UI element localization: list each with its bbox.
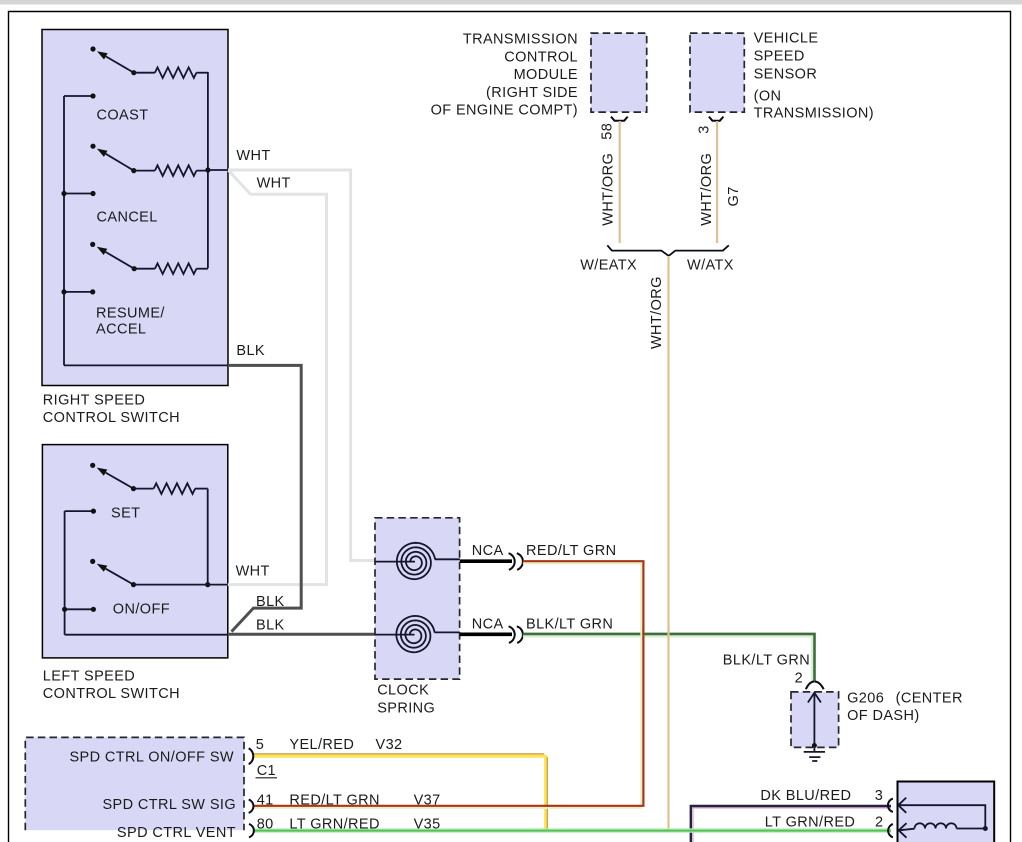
clock spring top coil (spiral) — [397, 543, 435, 579]
switch pivot dot (COAST) — [131, 70, 136, 75]
svg-text:41: 41 — [257, 793, 274, 809]
switch fixed contact dot (CANCEL) — [90, 144, 95, 149]
svg-text:RED/LT GRN: RED/LT GRN — [526, 543, 616, 559]
wire: pivot to resistor (CANCEL) — [134, 170, 155, 172]
wire: branch to SET contact — [65, 510, 94, 512]
switch pivot dot (SET) — [131, 486, 136, 491]
svg-text:W/ATX: W/ATX — [687, 258, 734, 274]
connector cup under TCM — [611, 117, 628, 121]
resistor (SET) — [154, 483, 196, 494]
junction dot (servo) — [983, 826, 988, 831]
svg-text:SPD CTRL ON/OFF SW: SPD CTRL ON/OFF SW — [69, 749, 234, 765]
connector bracket pin 5 — [249, 748, 254, 764]
clock spring bottom coil (spiral) — [396, 616, 434, 652]
switch contact arm (COAST) — [106, 56, 134, 72]
svg-text:SPEED: SPEED — [754, 49, 805, 65]
junction dot — [62, 607, 67, 612]
wire: pivot to resistor (RESUME) — [134, 268, 155, 270]
svg-text:YEL/RED: YEL/RED — [289, 737, 354, 753]
junction dot — [61, 191, 66, 196]
wire: branch to CANCEL contact — [64, 193, 93, 195]
svg-text:SENSOR: SENSOR — [754, 66, 818, 82]
node dot — [90, 191, 95, 196]
svg-text:V35: V35 — [414, 816, 441, 832]
svg-text:(RIGHT SIDE: (RIGHT SIDE — [486, 85, 578, 101]
wire DK BLU/RED : dk blue main — [691, 806, 891, 842]
wire out of top spiral — [435, 558, 460, 560]
wire BLK (right switch to junction) — [228, 365, 301, 631]
svg-text:WHT/ORG: WHT/ORG — [600, 153, 616, 226]
switch contact arm (ON/OFF) — [106, 569, 134, 585]
svg-text:80: 80 — [257, 816, 274, 832]
svg-text:CONTROL: CONTROL — [504, 49, 578, 65]
connector arc (G206) — [806, 682, 824, 690]
servo box (bottom right) — [898, 782, 995, 842]
junction dot (CANCEL output) — [205, 167, 210, 172]
svg-text:CONTROL SWITCH: CONTROL SWITCH — [43, 686, 180, 702]
svg-text:RESUME/: RESUME/ — [96, 305, 165, 321]
wire: right vertical SET resistor to ON/OFF — [207, 489, 209, 585]
svg-text:CANCEL: CANCEL — [97, 209, 158, 225]
wire WHT/ORG (combined, down) — [667, 256, 669, 829]
svg-text:MODULE: MODULE — [514, 67, 578, 83]
wire out of bottom spiral — [434, 631, 459, 633]
wire RED/LT GRN : red main — [254, 561, 643, 806]
speed control module connector box (dashed) — [25, 737, 244, 830]
svg-text:2: 2 — [795, 670, 803, 686]
svg-text:BLK/LT GRN: BLK/LT GRN — [723, 653, 810, 669]
svg-text:CLOCK: CLOCK — [377, 683, 429, 699]
wire DK BLU/RED : red stripe — [693, 808, 891, 842]
switch pivot dot (CANCEL) — [131, 168, 136, 173]
svg-text:G206: G206 — [847, 691, 884, 707]
svg-text:LT GRN/RED: LT GRN/RED — [289, 816, 379, 832]
svg-text:RED/LT GRN: RED/LT GRN — [289, 793, 379, 809]
ground node dot — [812, 743, 817, 748]
servo coil (inductor) — [915, 823, 957, 828]
resistor (RESUME) — [155, 263, 197, 274]
thick lead (bottom, NCA) — [460, 632, 512, 636]
transmission control module box (dashed) — [591, 33, 647, 112]
wire to coil — [899, 829, 915, 831]
svg-text:WHT/ORG: WHT/ORG — [649, 276, 665, 349]
wire: bottom common (left switch) — [65, 634, 228, 636]
wire: ON/OFF pivot to box edge — [134, 584, 228, 586]
switch fixed contact dot (COAST) — [90, 46, 95, 51]
svg-text:3: 3 — [875, 788, 883, 804]
wire: branch to RESUME contact — [64, 291, 93, 293]
svg-text:G7: G7 — [726, 186, 742, 206]
svg-text:OF ENGINE COMPT): OF ENGINE COMPT) — [431, 103, 578, 119]
svg-text:W/EATX: W/EATX — [580, 258, 637, 274]
switch pivot dot (ON/OFF) — [131, 582, 136, 587]
svg-text:TRANSMISSION): TRANSMISSION) — [754, 106, 874, 122]
svg-text:NCA: NCA — [472, 543, 504, 559]
svg-text:BLK: BLK — [236, 343, 265, 359]
svg-text:COAST: COAST — [97, 108, 149, 124]
svg-text:BLK/LT GRN: BLK/LT GRN — [526, 616, 613, 632]
svg-text:SPRING: SPRING — [377, 700, 435, 716]
connector cup under VSS — [709, 117, 724, 121]
ground arrow shaft — [813, 695, 815, 746]
connector bracket pin 80 — [249, 824, 254, 838]
clock spring box (dashed) — [375, 518, 460, 679]
svg-text:CONTROL SWITCH: CONTROL SWITCH — [43, 410, 180, 426]
wire LT GRN/RED : green main — [254, 830, 891, 832]
svg-text:WHT: WHT — [236, 564, 270, 580]
wire: pivot to resistor (SET) — [134, 488, 154, 490]
wire WHT/ORG from TCM pin 58 — [619, 121, 621, 243]
svg-text:5: 5 — [256, 737, 264, 753]
svg-text:OF DASH): OF DASH) — [847, 708, 919, 724]
svg-text:RIGHT SPEED: RIGHT SPEED — [43, 392, 145, 408]
svg-text:(ON: (ON — [754, 88, 782, 104]
svg-text:BLK: BLK — [256, 618, 285, 634]
wire YEL/RED (pin 5 to down) : red stripe — [254, 753, 544, 755]
connector bracket pin 41 — [249, 800, 254, 813]
connector bracket (servo pin 2) — [888, 824, 893, 837]
wire RED/LT GRN : lt green stripe — [254, 563, 641, 808]
svg-text:WHT: WHT — [236, 148, 270, 164]
wire WHT/ORG crossing restored over BLK/LT GRN — [667, 629, 669, 641]
wire coil to junction — [957, 828, 986, 830]
wire: right vertical joining resistors — [207, 72, 209, 268]
svg-text:WHT/ORG: WHT/ORG — [699, 153, 715, 226]
resistor (CANCEL) — [155, 165, 197, 176]
svg-text:3: 3 — [697, 125, 713, 133]
arrow into servo (pin 2) — [899, 823, 907, 838]
wire WHT/ORG from VSS pin 3 — [716, 121, 718, 243]
svg-text:LEFT SPEED: LEFT SPEED — [43, 668, 135, 684]
wire into bottom spiral — [375, 634, 415, 636]
wire BLK/LT GRN : lt green stripe — [523, 636, 813, 682]
wire: bottom common (right switch) — [64, 364, 228, 366]
node dot — [90, 93, 95, 98]
wire YEL/RED : yellow main — [254, 756, 546, 830]
wire: left bus vertical (right switch) — [63, 96, 65, 365]
svg-text:58: 58 — [599, 123, 615, 140]
svg-text:LT GRN/RED: LT GRN/RED — [765, 815, 855, 831]
ground arrow head (up) — [808, 693, 821, 703]
switch fixed contact dot (ON/OFF) — [90, 559, 95, 564]
wire: pivot to resistor (COAST) — [134, 72, 155, 74]
junction dot — [61, 289, 66, 294]
svg-text:SPD CTRL VENT: SPD CTRL VENT — [117, 825, 236, 841]
svg-text:BLK: BLK — [256, 594, 285, 610]
ground G206 box (dashed) — [791, 692, 839, 748]
vehicle speed sensor box (dashed) — [690, 33, 744, 112]
svg-text:2: 2 — [875, 815, 883, 831]
svg-text:V32: V32 — [376, 737, 403, 753]
switch contact arm (RESUME/ACCEL) — [106, 252, 135, 269]
wire: CANCEL junction to box edge — [196, 169, 228, 172]
arrow into servo (pin 3) — [898, 798, 906, 813]
switch pivot dot (RESUME/ACCEL) — [132, 266, 137, 271]
svg-text:DK BLU/RED: DK BLU/RED — [760, 788, 851, 804]
splice brace (W/EATX | W/ATX) — [607, 245, 729, 256]
svg-text:VEHICLE: VEHICLE — [754, 31, 819, 47]
wire into top spiral — [375, 561, 415, 563]
wire BLK/LT GRN : dk green main — [523, 634, 815, 683]
switch fixed contact dot (RESUME/ACCEL) — [90, 242, 95, 247]
earth ground symbol — [804, 746, 825, 762]
wire WHT (cancel junction to left switch ON/OFF) — [228, 171, 327, 585]
resistor (COAST) — [155, 67, 197, 78]
switch contact arm (CANCEL) — [106, 154, 134, 171]
thick lead (top, NCA) — [460, 559, 512, 563]
left speed control switch box — [42, 445, 227, 658]
wire WHT (cancel junction to clock spring) — [228, 170, 376, 561]
inline connector arcs (top) — [509, 553, 515, 570]
wire inside servo (pin 3 line) — [898, 805, 985, 828]
wire LT GRN/RED : halo — [254, 828, 891, 832]
svg-text:C1: C1 — [257, 763, 276, 779]
connector bracket (servo pin 3) — [888, 799, 893, 812]
right speed control switch box — [42, 30, 228, 386]
node dot — [90, 289, 95, 294]
svg-text:ACCEL: ACCEL — [96, 322, 146, 338]
svg-text:ON/OFF: ON/OFF — [113, 601, 170, 617]
svg-text:TRANSMISSION: TRANSMISSION — [463, 32, 578, 48]
svg-text:(CENTER: (CENTER — [896, 691, 963, 707]
svg-text:SET: SET — [111, 506, 140, 522]
switch contact arm (SET) — [106, 473, 134, 489]
inline connector arcs (bottom) — [509, 626, 515, 643]
wire RED/LT GRN crossing restored over BLK/LT GRN — [640, 629, 642, 641]
wire: branch to ON/OFF contact — [65, 608, 94, 610]
svg-text:WHT: WHT — [257, 175, 291, 191]
wire BLK (left switch common to clock spring) — [228, 633, 376, 636]
wire: branch to COAST contact — [64, 95, 93, 97]
switch fixed contact dot (SET) — [90, 463, 95, 468]
junction dot (ON/OFF output) — [205, 582, 210, 587]
svg-text:NCA: NCA — [472, 616, 504, 632]
svg-text:SPD CTRL SW SIG: SPD CTRL SW SIG — [102, 797, 236, 813]
svg-text:V37: V37 — [414, 793, 441, 809]
wire: left bus vertical (left switch) — [64, 511, 66, 635]
